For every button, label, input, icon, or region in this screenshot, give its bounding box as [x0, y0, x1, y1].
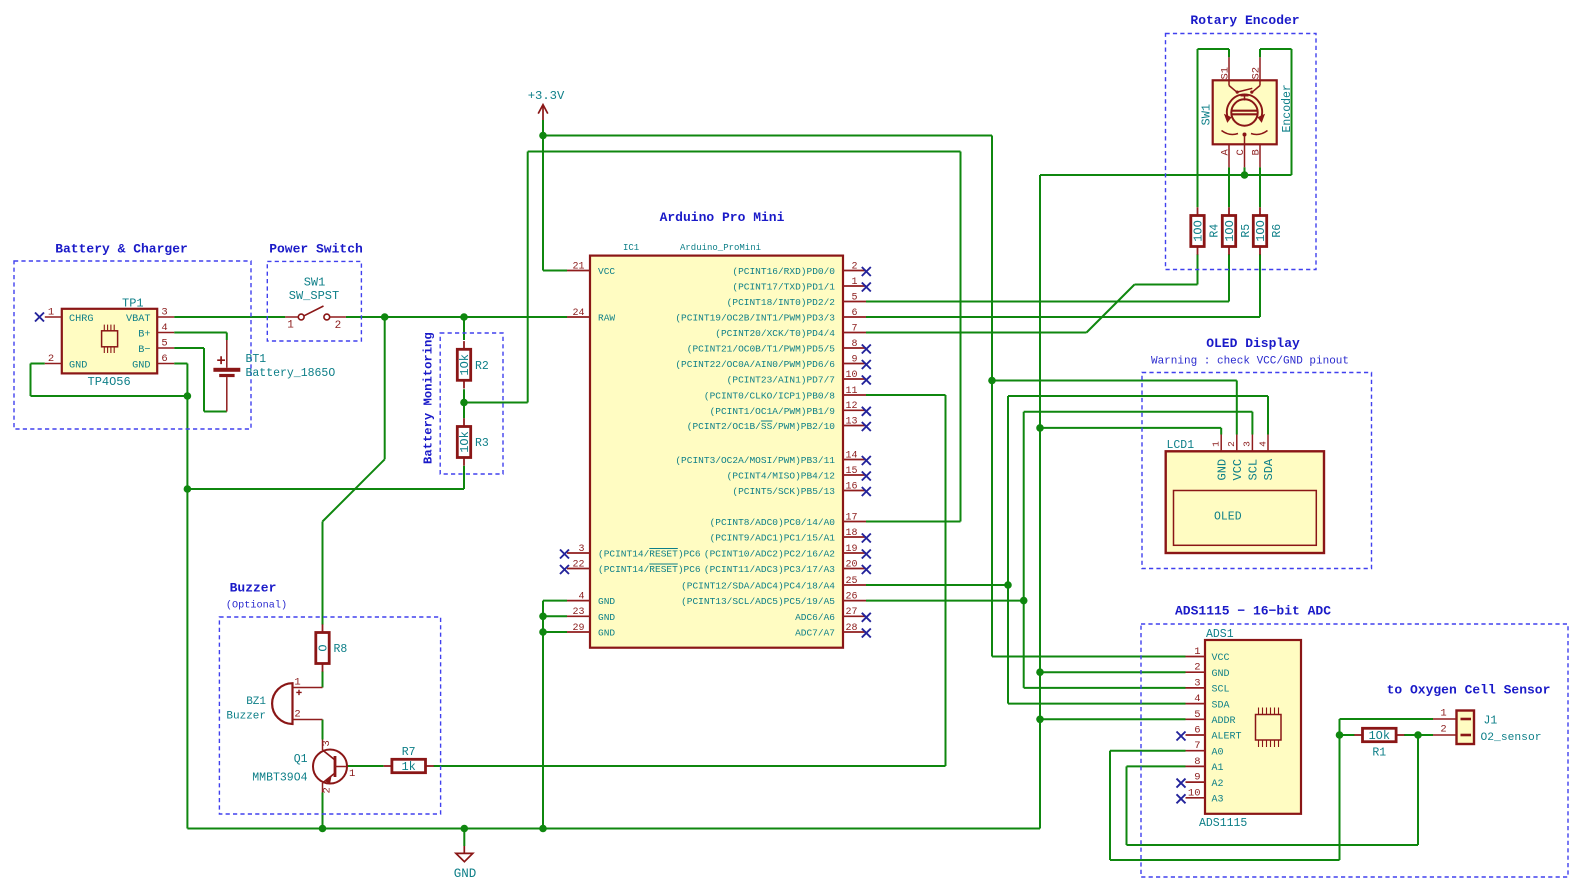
pin 23 left: [567, 607, 615, 623]
resistor R2: [457, 341, 489, 388]
wire: encoder B to R6: [1259, 167, 1261, 207]
svg-text:B+: B+: [138, 329, 150, 340]
svg-text:5: 5: [851, 292, 857, 303]
svg-text:7: 7: [851, 323, 857, 334]
svg-text:ADC7/A7: ADC7/A7: [795, 628, 835, 639]
svg-text:2: 2: [1440, 724, 1446, 736]
svg-text:Power Switch: Power Switch: [269, 242, 363, 257]
wire: ADS A0 to J1 pin1: [1110, 750, 1186, 752]
svg-text:1: 1: [1194, 646, 1200, 658]
pin 3 left: [560, 544, 701, 560]
resistor R3: [457, 418, 489, 465]
svg-text:Buzzer: Buzzer: [226, 711, 266, 723]
IC IC1 Arduino_ProMini: [590, 243, 843, 648]
svg-text:3: 3: [161, 307, 167, 319]
encoder SW1 (rotary): [1200, 57, 1295, 167]
wire: Q1 base - R7 - Arduino pin11: [347, 765, 384, 767]
connector J1 O2_sensor: [1433, 708, 1542, 745]
pin 2 right: [732, 261, 870, 277]
svg-text:Rotary Encoder: Rotary Encoder: [1190, 13, 1299, 28]
svg-text:5: 5: [1194, 709, 1200, 721]
svg-text:(PCINT12/SDA/ADC4)PC4/18/A4: (PCINT12/SDA/ADC4)PC4/18/A4: [681, 581, 835, 592]
pin 7 right: [715, 323, 866, 339]
junction: GND pin23: [539, 613, 547, 621]
wire: TP1 GND pin6 down: [174, 363, 187, 365]
junction: Arduino GND on rail: [539, 825, 547, 833]
buzzer BZ1: [226, 677, 322, 725]
svg-text:GND: GND: [1212, 669, 1230, 680]
svg-text:13: 13: [845, 416, 857, 427]
resistor R5: [1222, 207, 1253, 254]
resistor R4: [1191, 207, 1222, 254]
svg-text:2: 2: [1226, 441, 1237, 447]
junction: SDA node: [1004, 581, 1012, 589]
transistor Q1 MMBT3904: [252, 740, 355, 794]
svg-text:(PCINT14/RESET)PC6: (PCINT14/RESET)PC6: [598, 549, 701, 560]
svg-text:9: 9: [1194, 772, 1200, 784]
wire: SCL net pin26: [866, 600, 1024, 602]
junction: GND symbol on rail: [461, 825, 469, 833]
section box Battery Monitoring: [440, 333, 503, 474]
wire: GND symbol stub: [463, 829, 465, 847]
svg-text:O: O: [317, 644, 331, 651]
wire: +3.3V feed to OLED/ADS VCC: [542, 120, 544, 136]
junction: R3 bottom GND: [184, 485, 192, 493]
svg-text:(PCINT2/OC1B/SS/PWM)PB2/10: (PCINT2/OC1B/SS/PWM)PB2/10: [687, 421, 836, 432]
svg-text:(PCINT1/OC1A/PWM)PB1/9: (PCINT1/OC1A/PWM)PB1/9: [710, 406, 836, 417]
svg-text:A2: A2: [1212, 779, 1224, 790]
svg-text:3: 3: [1242, 441, 1253, 447]
wire: main power rail VBAT to RAW: [174, 316, 285, 318]
svg-text:5: 5: [161, 338, 167, 350]
pin 5 ADS: [1186, 709, 1236, 727]
svg-text:TP4O56: TP4O56: [88, 375, 131, 389]
junction: battery GND: [184, 392, 192, 400]
svg-text:27: 27: [845, 607, 857, 618]
svg-text:LCD1: LCD1: [1167, 439, 1195, 452]
svg-text:SDA: SDA: [1262, 458, 1276, 480]
svg-text:A: A: [1220, 149, 1232, 156]
IC TP1 TP4056 charger: [45, 296, 174, 389]
svg-text:16: 16: [845, 481, 857, 492]
svg-text:SW_SPST: SW_SPST: [289, 289, 339, 303]
pin 17 right: [710, 512, 866, 528]
svg-text:6: 6: [1194, 725, 1200, 737]
pin 24 left: [567, 308, 615, 324]
svg-text:(PCINT13/SCL/ADC5)PC5/19/A5: (PCINT13/SCL/ADC5)PC5/19/A5: [681, 596, 835, 607]
pin 3 ADS: [1186, 677, 1230, 695]
junction: 3V3/OLED VCC: [988, 377, 996, 385]
pin 1 ADS: [1186, 646, 1230, 664]
svg-text:(PCINT4/MISO)PB4/12: (PCINT4/MISO)PB4/12: [727, 471, 836, 482]
wire: Arduino PD3 pin6 to R6: [866, 316, 1260, 318]
wire: B- to battery bottom: [174, 347, 204, 349]
svg-text:O2_sensor: O2_sensor: [1481, 732, 1542, 744]
svg-text:R1: R1: [1372, 747, 1386, 760]
svg-text:6: 6: [161, 353, 167, 365]
svg-text:9: 9: [851, 354, 857, 365]
svg-text:to Oxygen Cell Sensor: to Oxygen Cell Sensor: [1387, 683, 1551, 698]
pin 26 right: [681, 591, 866, 607]
display LCD1 OLED: [1166, 435, 1324, 554]
wire: +3.3V down to Arduino VCC: [542, 136, 544, 271]
svg-text:1: 1: [294, 677, 300, 689]
resistor R8: [316, 624, 348, 671]
pin 19 right: [704, 544, 871, 560]
svg-text:4: 4: [1257, 441, 1268, 447]
pin 9 ADS: [1177, 772, 1224, 790]
ground symbol GND: [454, 846, 477, 881]
pin 6 ADS: [1177, 725, 1242, 743]
wire: Q1 emitter to rail: [322, 793, 324, 829]
svg-text:11: 11: [845, 386, 857, 397]
pin 28 right: [795, 623, 871, 639]
svg-text:8: 8: [1194, 756, 1200, 768]
wire: SDA net pin25: [866, 584, 1008, 586]
pin 8 right: [687, 339, 871, 355]
pin 14 right: [675, 450, 870, 466]
svg-text:2: 2: [851, 261, 857, 272]
junction: GND/OLED: [1036, 424, 1044, 432]
svg-text:22: 22: [572, 559, 584, 570]
wire: Arduino GND pins to rail: [542, 601, 544, 829]
wire: R1 leads: [1340, 734, 1355, 736]
wire: TP1 GND pin2 loop: [31, 363, 45, 365]
svg-text:1: 1: [349, 768, 355, 780]
svg-text:ADS1115: ADS1115: [1199, 817, 1247, 830]
svg-text:BZ1: BZ1: [246, 696, 266, 708]
svg-text:GND: GND: [132, 360, 150, 371]
svg-text:Arduino_ProMini: Arduino_ProMini: [680, 243, 761, 253]
svg-text:4: 4: [578, 591, 584, 602]
svg-text:Encoder: Encoder: [1281, 84, 1294, 132]
pin 20 right: [704, 559, 871, 575]
wire: encoder C pin stub join: [1244, 167, 1246, 175]
junction: J1 pin2/R1: [1414, 731, 1422, 739]
pin 29 left: [567, 623, 615, 639]
svg-text:SDA: SDA: [1212, 700, 1230, 711]
pin 6 right: [675, 308, 866, 324]
svg-text:SCL: SCL: [1247, 459, 1261, 481]
svg-text:(PCINT19/OC2B/INT1/PWM)PD3/3: (PCINT19/OC2B/INT1/PWM)PD3/3: [675, 313, 835, 324]
svg-text:VCC: VCC: [1231, 459, 1245, 481]
svg-text:(PCINT11/ADC3)PC3/17/A3: (PCINT11/ADC3)PC3/17/A3: [704, 564, 835, 575]
svg-text:Arduino Pro Mini: Arduino Pro Mini: [660, 210, 785, 225]
svg-text:ADC6/A6: ADC6/A6: [795, 612, 835, 623]
pin 5 right: [727, 292, 866, 308]
svg-text:GND: GND: [598, 628, 615, 639]
svg-text:GND: GND: [598, 612, 615, 623]
svg-text:29: 29: [572, 623, 584, 634]
junction: GND/ADS: [1036, 668, 1044, 676]
pin 1 right: [732, 277, 870, 293]
svg-text:6: 6: [851, 308, 857, 319]
svg-text:MMBT39O4: MMBT39O4: [252, 772, 307, 785]
svg-text:ADS1115 − 16−bit ADC: ADS1115 − 16−bit ADC: [1175, 604, 1331, 619]
svg-text:1OO: 1OO: [1192, 220, 1206, 242]
svg-text:R3: R3: [475, 437, 489, 450]
wire: ADS A1 to J1 pin2: [1127, 765, 1186, 767]
svg-text:GND: GND: [69, 360, 87, 371]
svg-text:R5: R5: [1240, 224, 1253, 238]
svg-text:2: 2: [335, 320, 342, 332]
section box ADS1115 ADC: [1141, 624, 1568, 877]
svg-text:1: 1: [287, 319, 294, 331]
svg-text:21: 21: [572, 261, 584, 272]
svg-text:(PCINT18/INT0)PD2/2: (PCINT18/INT0)PD2/2: [727, 297, 836, 308]
svg-text:RAW: RAW: [598, 313, 615, 324]
svg-text:A0: A0: [1212, 747, 1224, 758]
svg-text:(PCINT3/OC2A/MOSI/PWM)PB3/11: (PCINT3/OC2A/MOSI/PWM)PB3/11: [675, 455, 835, 466]
resistor R1: [1354, 728, 1404, 759]
svg-text:(PCINT8/ADC0)PC0/14/A0: (PCINT8/ADC0)PC0/14/A0: [710, 517, 836, 528]
junction: power rail to buzzer: [381, 313, 389, 321]
svg-text:1: 1: [1211, 441, 1222, 447]
svg-text:(Optional): (Optional): [226, 600, 287, 612]
junction: encoder C node: [1241, 171, 1249, 179]
svg-text:(PCINT10/ADC2)PC2/16/A2: (PCINT10/ADC2)PC2/16/A2: [704, 549, 835, 560]
svg-text:(PCINT20/XCK/T0)PD4/4: (PCINT20/XCK/T0)PD4/4: [715, 328, 835, 339]
svg-text:2: 2: [322, 787, 334, 793]
svg-text:VCC: VCC: [1212, 653, 1230, 664]
svg-text:1Ok: 1Ok: [1368, 729, 1390, 743]
pin 10 ADS: [1177, 787, 1224, 805]
svg-text:26: 26: [845, 591, 857, 602]
svg-text:1: 1: [48, 307, 54, 319]
no-connect X on CHRG: [35, 313, 44, 322]
pin 13 right: [687, 416, 871, 432]
svg-text:10: 10: [845, 370, 857, 381]
svg-text:4: 4: [161, 322, 167, 334]
junction: power rail to divider: [460, 313, 468, 321]
wire: GND vertical encoder-C to rail: [1039, 175, 1041, 829]
svg-text:VBAT: VBAT: [126, 314, 150, 325]
wire: battery divider top: [463, 317, 465, 340]
svg-text:2: 2: [294, 709, 300, 721]
svg-text:2: 2: [48, 353, 54, 365]
svg-text:1OO: 1OO: [1254, 220, 1268, 242]
svg-text:IC1: IC1: [623, 243, 639, 253]
wire: bottom ground rail: [187, 828, 1040, 830]
svg-text:(PCINT23/AIN1)PD7/7: (PCINT23/AIN1)PD7/7: [727, 375, 835, 386]
svg-text:23: 23: [572, 607, 584, 618]
section box Buzzer: [219, 617, 440, 814]
svg-text:19: 19: [845, 544, 857, 555]
svg-text:1: 1: [851, 277, 857, 288]
svg-text:+3.3V: +3.3V: [528, 89, 565, 103]
wire: buzzer pin2 to Q1 collector: [322, 720, 324, 740]
svg-text:ADDR: ADDR: [1212, 716, 1236, 727]
pin 21 left: [567, 261, 615, 277]
IC ADS1 ADS1115: [1177, 628, 1302, 830]
svg-text:CHRG: CHRG: [69, 314, 93, 325]
svg-text:GND: GND: [454, 867, 477, 881]
svg-text:VCC: VCC: [598, 266, 615, 277]
svg-text:B: B: [1251, 149, 1263, 155]
svg-text:Battery & Charger: Battery & Charger: [55, 242, 188, 257]
svg-text:17: 17: [845, 512, 857, 523]
wire: ADS GND: [1040, 671, 1186, 673]
wire: divider mid to A0: [463, 389, 465, 402]
pin 4 ADS: [1186, 693, 1230, 711]
svg-text:1: 1: [1440, 708, 1446, 720]
pin 8 ADS: [1186, 756, 1224, 774]
svg-text:R6: R6: [1271, 224, 1284, 238]
junction: SCL node: [1020, 597, 1028, 605]
svg-text:Buzzer: Buzzer: [230, 581, 277, 596]
junction: emitter to rail: [319, 825, 327, 833]
svg-text:C: C: [1235, 149, 1247, 155]
wire: encoder A to R5: [1228, 167, 1230, 207]
wire: OLED GND: [1040, 427, 1221, 429]
junction: +3.3V node: [539, 132, 547, 140]
svg-text:ALERT: ALERT: [1212, 732, 1242, 743]
section box Power Switch: [267, 261, 361, 341]
wire: encoder S1 to R4: [1228, 49, 1230, 57]
svg-text:Battery_1865O: Battery_1865O: [246, 367, 336, 380]
pin 16 right: [732, 481, 870, 497]
resistor R6: [1253, 207, 1284, 254]
pin 9 right: [675, 354, 870, 370]
svg-text:B−: B−: [138, 345, 150, 356]
svg-text:8: 8: [851, 339, 857, 350]
svg-text:ADS1: ADS1: [1206, 628, 1234, 641]
wire: switched power down to buzzer R8: [384, 317, 386, 459]
svg-text:TP1: TP1: [122, 296, 144, 310]
svg-text:S2: S2: [1251, 67, 1263, 80]
pin 12 right: [710, 401, 871, 417]
svg-text:S1: S1: [1220, 67, 1232, 80]
wire: R8 to buzzer pin1: [322, 671, 324, 687]
svg-text:20: 20: [845, 559, 857, 570]
svg-text:(PCINT22/OC0A/AIN0/PWM)PD6/6: (PCINT22/OC0A/AIN0/PWM)PD6/6: [675, 359, 835, 370]
svg-text:BT1: BT1: [246, 353, 267, 366]
switch SW1 SW_SPST: [285, 275, 346, 332]
svg-text:3: 3: [578, 544, 584, 555]
section box Rotary Encoder: [1166, 34, 1317, 270]
svg-text:1OO: 1OO: [1223, 220, 1237, 242]
wire: Arduino PD4 pin7 to R4: [866, 332, 1087, 334]
junction: divider mid node: [460, 399, 468, 407]
pin 10 right: [727, 370, 871, 386]
svg-text:3: 3: [1194, 677, 1200, 689]
svg-text:3: 3: [321, 740, 333, 746]
svg-text:18: 18: [845, 528, 857, 539]
svg-text:10: 10: [1188, 787, 1201, 799]
svg-text:OLED: OLED: [1214, 511, 1242, 524]
section box Battery & Charger: [14, 261, 251, 429]
svg-text:(PCINT17/TXD)PD1/1: (PCINT17/TXD)PD1/1: [732, 282, 835, 293]
svg-text:OLED Display: OLED Display: [1206, 336, 1300, 351]
junction: GND/ADDR: [1036, 716, 1044, 724]
svg-text:R8: R8: [334, 643, 348, 656]
svg-text:R2: R2: [475, 360, 489, 373]
pin 18 right: [710, 528, 871, 544]
svg-text:7: 7: [1194, 740, 1200, 752]
pin 27 right: [795, 607, 871, 623]
svg-text:15: 15: [845, 466, 857, 477]
svg-text:SCL: SCL: [1212, 685, 1230, 696]
svg-text:28: 28: [845, 623, 857, 634]
wire: Arduino PD2 pin5 to R5: [866, 301, 1229, 303]
svg-text:(PCINT14/RESET)PC6: (PCINT14/RESET)PC6: [598, 564, 701, 575]
svg-text:12: 12: [845, 401, 857, 412]
pin 11 right: [704, 386, 866, 402]
svg-text:GND: GND: [598, 596, 615, 607]
junction: J1 pin1/R1: [1336, 731, 1344, 739]
pin 15 right: [727, 466, 871, 482]
pin 22 left: [560, 559, 701, 575]
power symbol +3.3V: [528, 89, 565, 120]
pin 4 left: [567, 591, 615, 607]
svg-text:(PCINT21/OC0B/T1/PWM)PD5/5: (PCINT21/OC0B/T1/PWM)PD5/5: [687, 344, 836, 355]
svg-text:(PCINT5/SCK)PB5/13: (PCINT5/SCK)PB5/13: [732, 486, 835, 497]
wire: B+ to battery: [174, 332, 227, 334]
svg-text:Warning : check VCC/GND pinout: Warning : check VCC/GND pinout: [1151, 356, 1349, 368]
svg-text:(PCINT0/CLKO/ICP1)PB0/8: (PCINT0/CLKO/ICP1)PB0/8: [704, 391, 835, 402]
svg-text:A1: A1: [1212, 763, 1224, 774]
svg-text:4: 4: [1194, 693, 1200, 705]
svg-text:Q1: Q1: [294, 753, 308, 766]
svg-text:J1: J1: [1484, 714, 1498, 727]
wire: divider bottom to ground: [463, 403, 465, 419]
wire: ADS ADDR to ground: [1040, 718, 1186, 720]
svg-text:24: 24: [572, 308, 584, 319]
svg-text:R7: R7: [402, 746, 416, 759]
battery BT1 Battery_18650: [213, 340, 335, 412]
svg-text:SW1: SW1: [304, 275, 326, 289]
svg-text:(PCINT16/RXD)PD0/0: (PCINT16/RXD)PD0/0: [732, 266, 835, 277]
svg-text:SW1: SW1: [1200, 104, 1214, 126]
pin 2 ADS: [1186, 662, 1230, 680]
junction: GND pin29: [539, 628, 547, 636]
pin 25 right: [681, 576, 866, 592]
resistor R7: [384, 746, 434, 774]
svg-text:(PCINT9/ADC1)PC1/15/A1: (PCINT9/ADC1)PC1/15/A1: [710, 533, 836, 544]
section box OLED Display: [1142, 373, 1372, 569]
pin 7 ADS: [1186, 740, 1224, 758]
svg-text:R4: R4: [1209, 224, 1222, 238]
svg-text:A3: A3: [1212, 795, 1224, 806]
wire: OLED VCC: [992, 380, 1237, 382]
svg-text:14: 14: [845, 450, 857, 461]
svg-text:GND: GND: [1215, 459, 1229, 481]
svg-text:2: 2: [1194, 662, 1200, 674]
svg-text:Battery Monitoring: Battery Monitoring: [422, 332, 436, 464]
wire: encoder C horizontal: [1040, 174, 1292, 176]
svg-text:1Ok: 1Ok: [458, 354, 472, 376]
svg-text:25: 25: [845, 576, 857, 587]
svg-text:1Ok: 1Ok: [458, 431, 472, 453]
svg-text:1k: 1k: [401, 760, 415, 774]
